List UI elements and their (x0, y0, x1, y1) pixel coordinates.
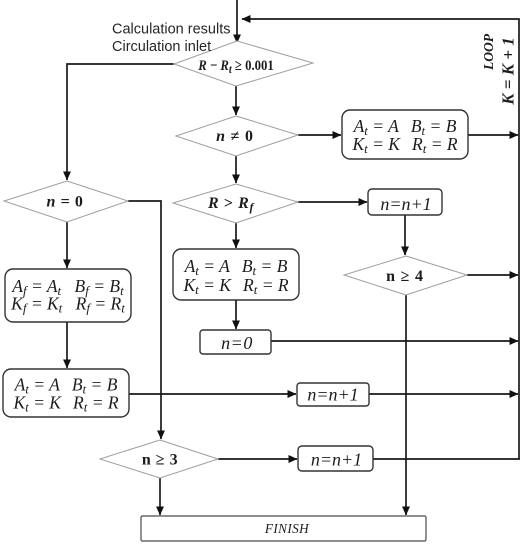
svg-text:Calculation results: Calculation results (112, 22, 230, 38)
svg-text:K = K + 1: K = K + 1 (499, 37, 518, 106)
svg-text:n ≥ 3: n ≥ 3 (142, 452, 178, 469)
svg-text:n ≠ 0: n ≠ 0 (216, 128, 254, 145)
svg-text:n = 0: n = 0 (46, 194, 83, 211)
svg-text:n=n+1: n=n+1 (307, 385, 358, 405)
svg-text:n=n+1: n=n+1 (380, 194, 431, 214)
svg-text:Circulation inlet: Circulation inlet (112, 39, 211, 55)
svg-text:R − Rt ≥ 0.001: R − Rt ≥ 0.001 (197, 58, 273, 76)
svg-text:n ≥ 4: n ≥ 4 (386, 268, 424, 285)
svg-text:n=0: n=0 (221, 333, 253, 353)
svg-text:FINISH: FINISH (264, 521, 310, 536)
svg-text:R > Rf: R > Rf (207, 195, 254, 214)
svg-text:n=n+1: n=n+1 (311, 450, 362, 470)
svg-text:LOOP: LOOP (481, 33, 496, 71)
